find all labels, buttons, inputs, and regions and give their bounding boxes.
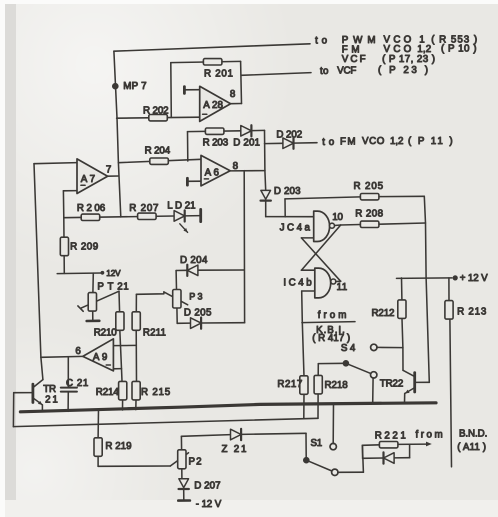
svg-text:( A11 ): ( A11 ) <box>457 442 486 453</box>
svg-text:D 203: D 203 <box>274 186 301 197</box>
svg-text:to: to <box>315 35 328 46</box>
svg-text:R 208: R 208 <box>355 209 383 220</box>
svg-text:Z 21: Z 21 <box>222 444 247 455</box>
svg-text:R214: R214 <box>96 387 120 398</box>
svg-text:R210: R210 <box>94 328 118 339</box>
svg-text:12V: 12V <box>106 269 121 278</box>
svg-text:1,2: 1,2 <box>390 136 403 147</box>
svg-text:D 204: D 204 <box>180 255 208 266</box>
svg-text:VCF: VCF <box>342 54 366 65</box>
svg-text:R212: R212 <box>372 308 395 319</box>
svg-text:8: 8 <box>233 161 239 172</box>
svg-text:to: to <box>320 66 329 77</box>
svg-text:D 205: D 205 <box>184 308 212 319</box>
svg-text:P 3: P 3 <box>189 292 202 302</box>
svg-text:R 204: R 204 <box>145 146 171 157</box>
svg-text:J C 4 a: J C 4 a <box>280 223 311 234</box>
svg-text:VCF: VCF <box>337 66 356 77</box>
svg-text:A 28: A 28 <box>203 100 223 111</box>
svg-text:R217: R217 <box>277 379 302 390</box>
svg-text:to: to <box>322 137 335 148</box>
svg-text:D 202: D 202 <box>276 130 302 141</box>
svg-text:L D 21: L D 21 <box>167 201 195 212</box>
svg-text:S1: S1 <box>311 438 323 449</box>
svg-text:R 213: R 213 <box>457 307 487 318</box>
svg-text:MP 7: MP 7 <box>123 81 146 92</box>
svg-text:10: 10 <box>332 212 343 223</box>
svg-text:- 12 V: - 12 V <box>196 499 222 510</box>
svg-text:A 7: A 7 <box>81 174 95 185</box>
svg-text:TR22: TR22 <box>380 379 404 390</box>
svg-text:B.N.D.: B.N.D. <box>459 428 487 439</box>
svg-text:D 207: D 207 <box>194 481 220 492</box>
svg-text:TR: TR <box>43 384 56 395</box>
svg-text:A 6: A 6 <box>205 168 220 179</box>
svg-text:R 202: R 202 <box>143 106 169 117</box>
svg-text:R 207: R 207 <box>129 203 158 214</box>
svg-text:I C 4 b: I C 4 b <box>283 278 312 289</box>
svg-text:R 203: R 203 <box>203 138 229 149</box>
svg-text:R 215: R 215 <box>141 387 171 398</box>
svg-text:8: 8 <box>230 89 236 100</box>
svg-text:( P 10 ): ( P 10 ) <box>441 44 477 55</box>
svg-text:R211: R211 <box>143 328 166 339</box>
svg-text:11: 11 <box>337 282 348 293</box>
svg-text:R 205: R 205 <box>354 181 384 192</box>
svg-text:7: 7 <box>106 165 111 176</box>
svg-text:R 2 2 1: R 2 2 1 <box>375 430 406 441</box>
svg-text:R218: R218 <box>325 380 349 391</box>
svg-text:R 2 06: R 2 06 <box>77 203 106 214</box>
svg-text:C 21: C 21 <box>66 378 88 389</box>
svg-text:FM: FM <box>340 137 356 148</box>
svg-text:R 201: R 201 <box>204 69 233 80</box>
svg-text:VCO: VCO <box>362 136 385 147</box>
svg-text:( P 11 ): ( P 11 ) <box>408 136 453 147</box>
svg-text:P T 21: P T 21 <box>97 282 128 293</box>
svg-text:S 4: S 4 <box>341 343 356 354</box>
svg-text:R 209: R 209 <box>70 241 98 252</box>
svg-text:A 9: A 9 <box>93 352 107 363</box>
svg-text:R 219: R 219 <box>105 441 131 452</box>
svg-text:D 201: D 201 <box>233 137 260 148</box>
svg-text:( P 23 ): ( P 23 ) <box>378 65 428 76</box>
svg-text:( P 17, 23 ): ( P 17, 23 ) <box>382 54 435 65</box>
svg-text:+ 12 V: + 12 V <box>460 273 488 284</box>
svg-text:6: 6 <box>75 346 81 357</box>
svg-text:21: 21 <box>45 395 58 406</box>
